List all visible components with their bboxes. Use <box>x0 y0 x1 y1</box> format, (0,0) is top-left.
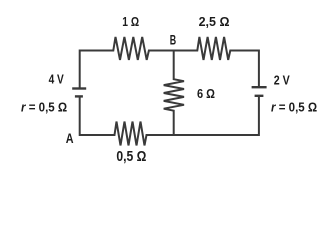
svg-text:2,5 Ω: 2,5 Ω <box>199 15 230 29</box>
svg-text:r = 0,5 Ω: r = 0,5 Ω <box>21 100 67 114</box>
svg-text:r = 0,5 Ω: r = 0,5 Ω <box>271 100 317 114</box>
svg-text:1 Ω: 1 Ω <box>122 15 139 29</box>
svg-text:0,5 Ω: 0,5 Ω <box>116 149 146 165</box>
svg-text:2 V: 2 V <box>274 73 291 87</box>
svg-text:6 Ω: 6 Ω <box>197 87 215 101</box>
svg-text:B: B <box>170 33 177 48</box>
svg-text:4 V: 4 V <box>49 72 65 86</box>
svg-text:A: A <box>66 131 74 146</box>
